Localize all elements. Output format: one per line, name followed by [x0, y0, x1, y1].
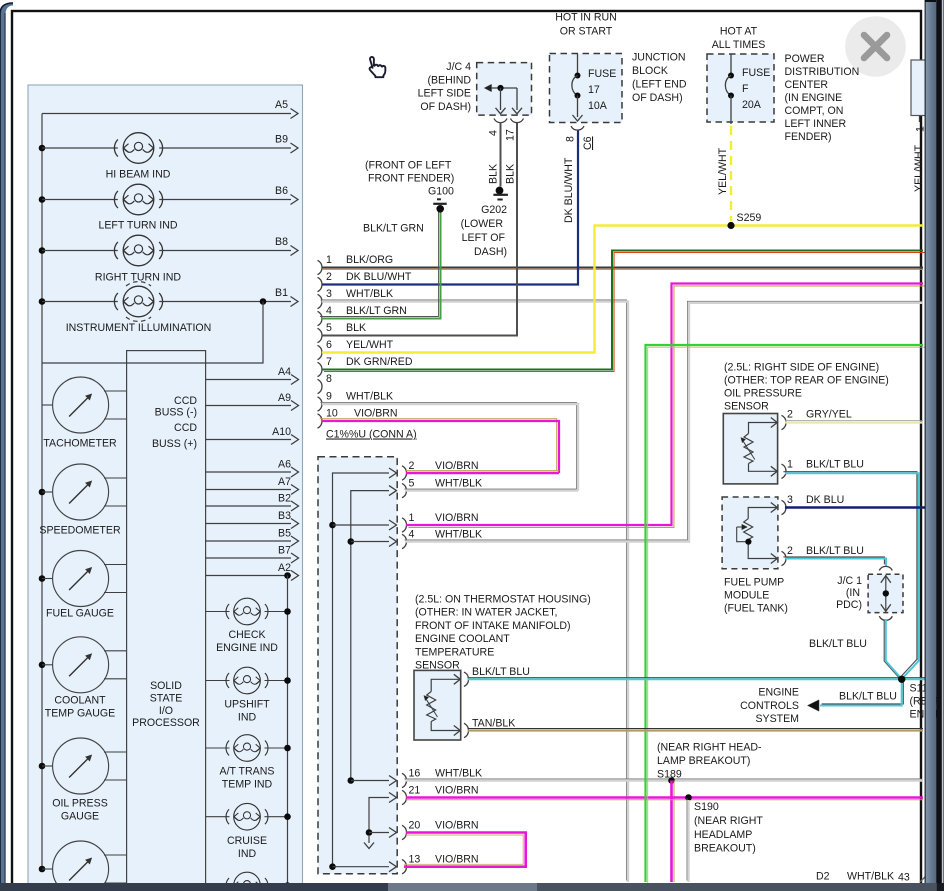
svg-text:UPSHIFT: UPSHIFT — [224, 699, 270, 711]
svg-text:5: 5 — [326, 322, 332, 334]
svg-text:LAMP BREAKOUT): LAMP BREAKOUT) — [657, 755, 750, 767]
gauge FUEL GAUGE — [39, 575, 46, 582]
connector C1 conn A pin 6 — [318, 345, 323, 359]
wire 5 BLK to G202 — [322, 122, 517, 336]
wire pin B5 — [206, 540, 291, 542]
svg-text:2: 2 — [326, 271, 332, 283]
indicator lamp HI BEAM IND — [39, 145, 46, 152]
junction connector J/C 1 — [879, 566, 892, 570]
svg-text:9: 9 — [326, 391, 332, 403]
svg-text:6: 6 — [326, 339, 332, 351]
gauge SPEEDOMETER — [39, 489, 46, 496]
svg-text:B7: B7 — [278, 545, 291, 557]
wire pin B2 — [206, 505, 291, 507]
B1 drop wire to processor bus — [42, 302, 263, 364]
connector C1 conn A pin 5 — [318, 328, 323, 342]
svg-text:8: 8 — [565, 136, 577, 142]
wire 9 WHT/BLK — [321, 403, 577, 490]
wire conn pin4 WHT/BLK — [405, 301, 922, 540]
svg-text:OF DASH): OF DASH) — [632, 92, 683, 104]
svg-text:BLK/LT BLU: BLK/LT BLU — [472, 666, 530, 678]
svg-text:OR START: OR START — [560, 26, 613, 38]
svg-text:BLK: BLK — [346, 322, 366, 334]
svg-text:A4: A4 — [278, 366, 291, 378]
right scrollbar — [937, 0, 944, 891]
svg-text:GRY/YEL: GRY/YEL — [806, 409, 852, 421]
fuel pump module — [722, 497, 778, 569]
svg-text:HEADLAMP: HEADLAMP — [694, 829, 752, 841]
svg-text:DK GRN/RED: DK GRN/RED — [346, 356, 413, 368]
svg-text:1: 1 — [409, 512, 415, 524]
svg-text:WHT/BLK: WHT/BLK — [435, 477, 482, 489]
svg-text:F: F — [742, 83, 749, 95]
svg-text:ENGINE: ENGINE — [758, 687, 799, 699]
conn pin21/20 branch with down arrow — [369, 798, 389, 833]
svg-text:CHECK: CHECK — [228, 629, 265, 641]
svg-text:ALL TIMES: ALL TIMES — [712, 39, 766, 51]
indicator lamp bus — [287, 576, 289, 887]
wire pin A4 — [206, 379, 291, 381]
connector C1 pin 5 — [389, 486, 397, 496]
instrument cluster panel — [28, 85, 303, 891]
wire conn pin1 VIO/BRN — [408, 286, 925, 528]
wire 2 DK BLU/WHT — [322, 130, 578, 285]
svg-text:DK BLU/WHT: DK BLU/WHT — [563, 157, 575, 223]
svg-text:YEL/WHT: YEL/WHT — [913, 144, 925, 192]
svg-text:SYSTEM: SYSTEM — [755, 713, 799, 725]
svg-text:2: 2 — [787, 409, 793, 421]
svg-text:TEMP GAUGE: TEMP GAUGE — [45, 707, 115, 719]
svg-text:HOT AT: HOT AT — [720, 26, 758, 38]
wire 3 WHT/BLK — [321, 300, 627, 881]
wire TAN/BLK — [468, 728, 924, 730]
svg-text:C1%%U (CONN A): C1%%U (CONN A) — [326, 429, 417, 441]
mouse hand cursor — [370, 57, 386, 77]
svg-text:CCD: CCD — [174, 422, 197, 434]
svg-text:(OTHER: IN WATER JACKET,: (OTHER: IN WATER JACKET, — [415, 607, 557, 619]
svg-text:DK BLU/WHT: DK BLU/WHT — [346, 271, 412, 283]
svg-text:WHT/BLK: WHT/BLK — [435, 767, 482, 779]
wire pin A10 — [206, 439, 291, 441]
svg-text:CCD: CCD — [174, 395, 197, 407]
wire A5 row — [42, 113, 291, 115]
svg-text:(LOWER: (LOWER — [461, 218, 504, 230]
svg-text:DASH): DASH) — [474, 246, 507, 258]
wire 6 YEL/WHT — [322, 226, 923, 353]
svg-text:VIO/BRN: VIO/BRN — [354, 408, 398, 420]
svg-text:WHT/BLK: WHT/BLK — [847, 871, 894, 883]
svg-text:FENDER): FENDER) — [785, 131, 832, 143]
gauge GAUGE6 — [39, 866, 46, 873]
svg-text:16: 16 — [409, 767, 421, 779]
svg-text:BLK/LT BLU: BLK/LT BLU — [806, 545, 864, 557]
svg-text:FUEL GAUGE: FUEL GAUGE — [46, 608, 114, 620]
wire YEL/WHT dashed — [730, 126, 732, 221]
svg-text:OIL PRESS: OIL PRESS — [52, 798, 108, 810]
indicator lamp CHECK ENGINE IND — [206, 611, 230, 613]
wire conn pin16 WHT/BLK — [405, 778, 922, 780]
partial PDC box right edge — [911, 60, 930, 116]
svg-text:B3: B3 — [278, 510, 291, 522]
svg-text:TEMPERATURE: TEMPERATURE — [415, 646, 494, 658]
wire 1 BLK/ORG — [322, 268, 923, 270]
wire pin A9 — [206, 405, 291, 407]
svg-text:BLK/ORG: BLK/ORG — [346, 254, 393, 266]
svg-text:10: 10 — [326, 408, 338, 420]
gauge OIL PRESS GAUGE — [39, 763, 46, 770]
wire BLK/LT BLU to J/C1 — [783, 557, 884, 565]
svg-text:SPEEDOMETER: SPEEDOMETER — [39, 525, 121, 537]
indicator lamp UPSHIFT IND — [206, 680, 230, 682]
svg-text:BLK/LT BLU: BLK/LT BLU — [809, 638, 867, 650]
svg-text:(NEAR RIGHT: (NEAR RIGHT — [694, 815, 763, 827]
svg-text:(NEAR RIGHT HEAD-: (NEAR RIGHT HEAD- — [657, 742, 762, 754]
connector C1 pin 4 — [389, 537, 397, 547]
svg-text:BLK: BLK — [488, 164, 500, 184]
bottom scrollbar — [0, 883, 944, 891]
indicator lamp IND5 — [206, 885, 230, 887]
svg-text:WHT/BLK: WHT/BLK — [346, 288, 393, 300]
connector C1 pin 21 — [389, 793, 397, 803]
svg-text:7: 7 — [326, 356, 332, 368]
gauge TACHOMETER — [42, 404, 53, 406]
connector C1 pin 16 — [389, 776, 397, 786]
svg-text:3: 3 — [326, 288, 332, 300]
svg-text:B6: B6 — [275, 185, 288, 197]
svg-text:3: 3 — [787, 494, 793, 506]
svg-text:(2.5L: RIGHT SIDE OF ENGINE): (2.5L: RIGHT SIDE OF ENGINE) — [724, 362, 879, 374]
svg-text:OIL PRESSURE: OIL PRESSURE — [724, 388, 802, 400]
svg-text:1: 1 — [787, 459, 793, 471]
svg-text:MODULE: MODULE — [724, 590, 769, 602]
svg-text:LEFT TURN IND: LEFT TURN IND — [98, 220, 177, 232]
svg-text:ENGINE IND: ENGINE IND — [216, 642, 278, 654]
svg-text:J/C 1: J/C 1 — [837, 575, 862, 587]
svg-text:17: 17 — [505, 129, 517, 141]
connector C1 conn A pin 2 — [318, 277, 323, 291]
connector C1 conn A pin 4 — [318, 311, 323, 325]
connector C1 pin 13 — [389, 862, 397, 872]
wire BLK/LT BLU from J/C1 down — [884, 620, 899, 678]
svg-text:I/O: I/O — [159, 705, 173, 717]
svg-text:BUSS (-): BUSS (-) — [155, 407, 197, 419]
svg-text:2: 2 — [409, 460, 415, 472]
svg-text:SENSOR: SENSOR — [724, 401, 769, 413]
svg-text:COMPT, ON: COMPT, ON — [785, 105, 844, 117]
svg-text:IND: IND — [238, 712, 257, 724]
svg-text:4: 4 — [488, 130, 500, 136]
svg-text:CONTROLS: CONTROLS — [740, 700, 799, 712]
connector C1 conn A pin 10 — [318, 414, 323, 428]
svg-text:G202: G202 — [481, 204, 507, 216]
svg-text:C6: C6 — [582, 136, 594, 150]
wire 7 DK GRN/RED — [324, 253, 925, 372]
indicator lamp LEFT TURN IND — [39, 196, 46, 203]
svg-text:4: 4 — [409, 528, 415, 540]
svg-text:B2: B2 — [278, 493, 291, 505]
svg-text:PDC): PDC) — [836, 599, 862, 611]
svg-text:21: 21 — [409, 784, 421, 796]
splice S259 — [727, 222, 734, 229]
svg-text:BLK/LT BLU: BLK/LT BLU — [839, 691, 897, 703]
svg-text:HI BEAM IND: HI BEAM IND — [106, 169, 171, 181]
connector C1 pin 2 — [389, 468, 397, 478]
svg-text:(BEHIND: (BEHIND — [427, 74, 471, 86]
wire BLK to G202 ground — [500, 122, 502, 187]
svg-text:D2: D2 — [816, 871, 830, 883]
connector C1 conn A pin 8 — [318, 379, 323, 393]
svg-text:A/T TRANS: A/T TRANS — [220, 766, 275, 778]
svg-text:S190: S190 — [694, 801, 719, 813]
svg-text:VIO/BRN: VIO/BRN — [435, 854, 479, 866]
svg-text:4: 4 — [326, 305, 332, 317]
svg-text:(IN: (IN — [846, 587, 860, 599]
svg-text:S259: S259 — [737, 212, 762, 224]
wire pin B7 — [206, 557, 291, 559]
svg-text:A9: A9 — [278, 392, 291, 404]
svg-text:VIO/BRN: VIO/BRN — [435, 819, 479, 831]
svg-text:FUSE: FUSE — [742, 67, 770, 79]
svg-text:A2: A2 — [278, 562, 291, 574]
wire pin A7 — [206, 489, 291, 491]
connector C1 pin 1 — [389, 520, 397, 530]
svg-text:(FUEL TANK): (FUEL TANK) — [724, 603, 788, 615]
connector C1 conn A pin 3 — [318, 294, 323, 308]
conn bus A — [333, 473, 390, 867]
svg-text:5: 5 — [409, 477, 415, 489]
wire pin B3 — [206, 523, 291, 525]
svg-text:TEMP IND: TEMP IND — [222, 779, 273, 791]
svg-text:(IN ENGINE: (IN ENGINE — [785, 92, 843, 104]
wire LT GRN — [648, 347, 926, 884]
svg-text:2: 2 — [787, 545, 793, 557]
svg-text:FUSE: FUSE — [588, 68, 616, 80]
svg-text:PROCESSOR: PROCESSOR — [132, 717, 200, 729]
indicator lamp INSTRUMENT ILLUMINATION — [39, 298, 46, 305]
svg-text:LEFT INNER: LEFT INNER — [785, 118, 847, 130]
svg-text:BREAKOUT): BREAKOUT) — [694, 843, 756, 855]
svg-text:G100: G100 — [428, 186, 454, 198]
svg-text:A10: A10 — [272, 426, 291, 438]
close button — [845, 16, 906, 77]
svg-text:BLOCK: BLOCK — [632, 65, 668, 77]
svg-text:WHT/BLK: WHT/BLK — [435, 528, 482, 540]
svg-text:GAUGE: GAUGE — [61, 810, 99, 822]
splice S189 — [668, 777, 675, 784]
svg-text:B9: B9 — [275, 134, 288, 146]
connector C1 dashed box — [318, 457, 397, 874]
svg-text:OF DASH): OF DASH) — [420, 101, 471, 113]
connector C1 conn A pin 9 — [318, 397, 323, 411]
svg-text:1: 1 — [326, 254, 332, 266]
left bus wire — [41, 114, 43, 869]
svg-text:VIO/BRN: VIO/BRN — [435, 784, 479, 796]
svg-text:S189: S189 — [657, 769, 682, 781]
svg-text:LEFT SIDE: LEFT SIDE — [418, 88, 471, 100]
svg-text:STATE: STATE — [150, 693, 183, 705]
svg-text:BLK/LT BLU: BLK/LT BLU — [806, 459, 864, 471]
svg-text:13: 13 — [409, 854, 421, 866]
wire conn pin5 WHT/BLK — [405, 488, 577, 490]
svg-text:IND: IND — [238, 848, 257, 860]
connector C1 conn A pin 1 — [318, 260, 323, 274]
svg-text:HOT IN RUN: HOT IN RUN — [555, 12, 617, 24]
conn bus B — [351, 491, 389, 781]
solid state I/O processor box U1 — [127, 351, 206, 891]
svg-text:B8: B8 — [275, 236, 288, 248]
left edge sliver — [0, 3, 13, 891]
indicator lamp CRUISE IND — [206, 816, 230, 818]
svg-text:(OTHER: TOP REAR OF ENGINE): (OTHER: TOP REAR OF ENGINE) — [724, 375, 889, 387]
svg-text:BLK/LT GRN: BLK/LT GRN — [363, 223, 424, 235]
svg-text:20: 20 — [409, 819, 421, 831]
svg-text:TAN/BLK: TAN/BLK — [472, 718, 515, 730]
svg-text:JUNCTION: JUNCTION — [632, 52, 686, 64]
svg-text:LEFT OF: LEFT OF — [462, 232, 506, 244]
svg-text:J/C 4: J/C 4 — [446, 61, 471, 73]
svg-text:BUSS (+): BUSS (+) — [152, 438, 197, 450]
engine controls system arrow — [808, 700, 820, 711]
gauge COOLANT TEMP GAUGE — [39, 662, 46, 669]
svg-text:B1: B1 — [275, 287, 288, 299]
wire BLK/LT BLU from oil sensor pin1 — [783, 472, 917, 676]
wire DK BLU — [785, 506, 925, 509]
svg-text:17: 17 — [588, 84, 600, 96]
svg-text:B5: B5 — [278, 528, 291, 540]
svg-text:A7: A7 — [278, 476, 291, 488]
svg-text:8: 8 — [326, 373, 332, 385]
indicator lamp RIGHT TURN IND — [39, 247, 46, 254]
svg-text:(FRONT OF LEFT: (FRONT OF LEFT — [365, 160, 452, 172]
svg-text:COOLANT: COOLANT — [54, 695, 106, 707]
svg-text:FRONT FENDER): FRONT FENDER) — [368, 173, 454, 185]
svg-text:DISTRIBUTION: DISTRIBUTION — [785, 66, 860, 78]
svg-text:BLK: BLK — [505, 164, 517, 184]
svg-text:INSTRUMENT ILLUMINATION: INSTRUMENT ILLUMINATION — [66, 322, 212, 334]
svg-text:CRUISE: CRUISE — [227, 835, 267, 847]
wire pin A6 — [206, 471, 291, 473]
svg-text:YEL/WHT: YEL/WHT — [346, 339, 394, 351]
svg-text:CENTER: CENTER — [785, 79, 829, 91]
svg-text:TACHOMETER: TACHOMETER — [43, 438, 117, 450]
svg-text:RIGHT TURN IND: RIGHT TURN IND — [95, 272, 181, 284]
svg-text:ENGINE COOLANT: ENGINE COOLANT — [415, 633, 510, 645]
svg-text:VIO/BRN: VIO/BRN — [435, 460, 479, 472]
indicator lamp A/T TRANS TEMP IND — [206, 747, 230, 749]
wire BLK/LT BLU to S110 — [468, 677, 899, 679]
wire 10 VIO/BRN — [320, 419, 557, 471]
dashed dimmer arcs — [126, 282, 151, 286]
wire conn pin20-13 VIO/BRN loop — [404, 835, 523, 864]
svg-text:43: 43 — [898, 872, 910, 884]
svg-text:10A: 10A — [588, 100, 608, 112]
svg-text:(2.5L: ON THERMOSTAT HOUSING): (2.5L: ON THERMOSTAT HOUSING) — [415, 594, 591, 606]
splice S190 — [685, 794, 692, 801]
wire pin A2 — [206, 575, 291, 577]
svg-text:SOLID: SOLID — [150, 680, 182, 692]
connector C1 pin 20 — [389, 828, 397, 838]
wire GRY/YEL — [785, 420, 923, 422]
svg-text:A6: A6 — [278, 459, 291, 471]
splice S110 — [902, 677, 925, 679]
svg-text:A5: A5 — [275, 99, 288, 111]
ground G202 — [496, 187, 504, 195]
connector C1 conn A pin 7 — [318, 362, 323, 376]
svg-text:DK BLU: DK BLU — [806, 494, 844, 506]
wire conn pin2 VIO/BRN — [406, 470, 559, 472]
svg-text:YEL/WHT: YEL/WHT — [717, 147, 729, 195]
svg-text:POWER: POWER — [785, 53, 825, 65]
svg-text:FUEL PUMP: FUEL PUMP — [724, 577, 784, 589]
svg-text:VIO/BRN: VIO/BRN — [435, 512, 479, 524]
svg-text:(LEFT END: (LEFT END — [632, 79, 687, 91]
wire 4 BLK/LT GRN to G100 — [320, 211, 439, 317]
wire conn pin21 VIO/BRN — [406, 799, 923, 801]
svg-text:WHT/BLK: WHT/BLK — [346, 391, 393, 403]
svg-text:BLK/LT GRN: BLK/LT GRN — [346, 305, 407, 317]
junction connector J/C 4 — [477, 63, 532, 116]
svg-text:FRONT OF INTAKE MANIFOLD): FRONT OF INTAKE MANIFOLD) — [415, 620, 571, 632]
svg-text:20A: 20A — [742, 99, 762, 111]
